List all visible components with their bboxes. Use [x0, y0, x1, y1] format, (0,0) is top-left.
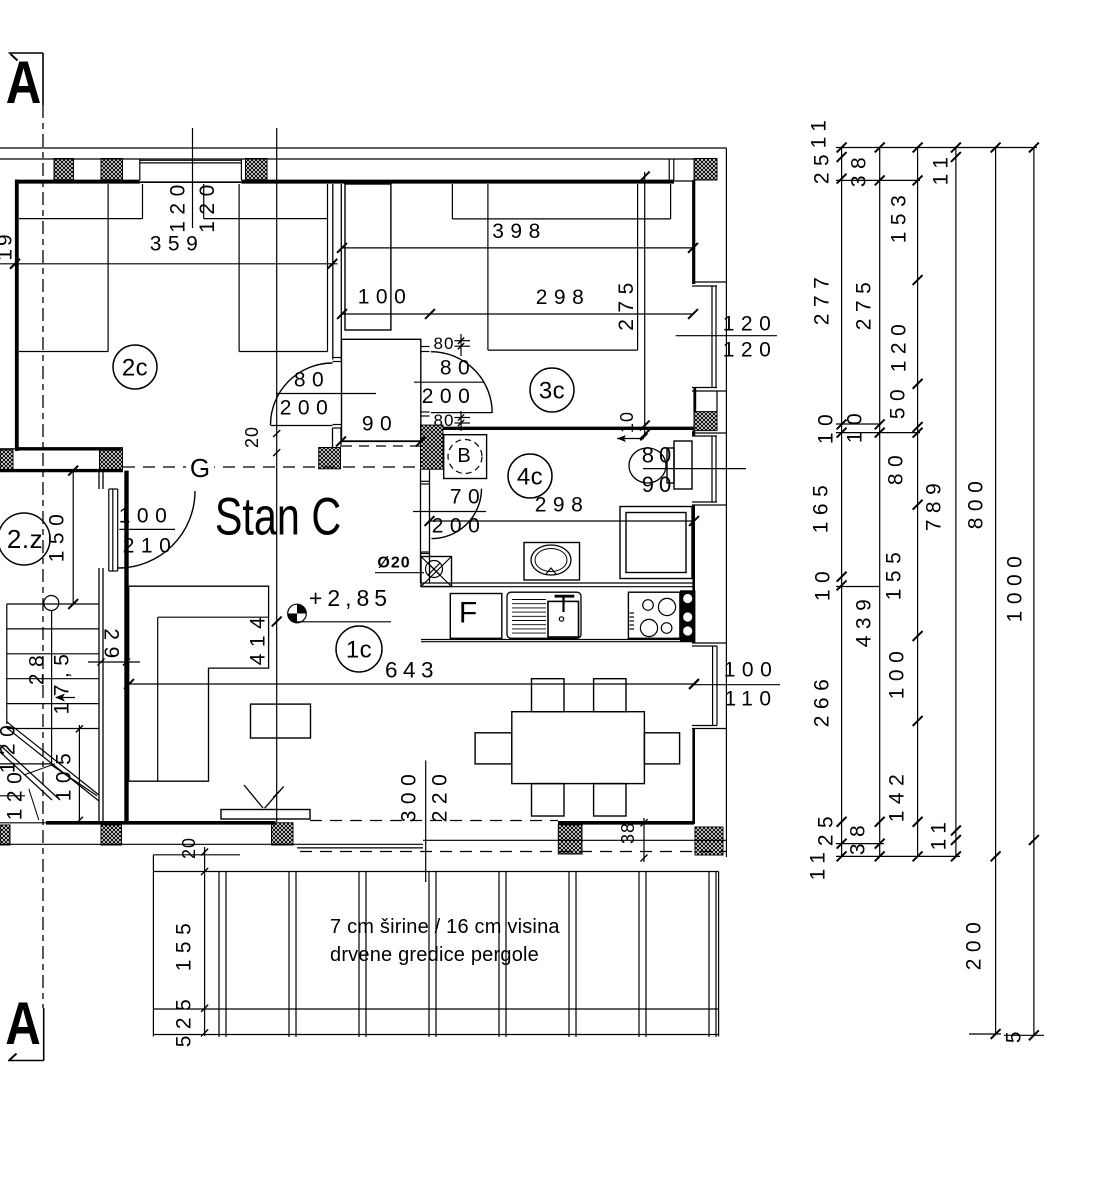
- svg-text:2c: 2c: [122, 355, 148, 382]
- pergola top beam: [153, 871, 718, 873]
- svg-text:70: 70: [450, 486, 486, 509]
- dim stub d3c bot: [460, 411, 462, 431]
- chain connector 856: [836, 855, 960, 857]
- outer boundary right: [725, 148, 727, 857]
- pergola right edge: [718, 872, 720, 1037]
- svg-text:120: 120: [167, 178, 190, 233]
- section mark A bottom: [8, 1060, 44, 1062]
- tick 29 a: [97, 658, 104, 665]
- kitchen counter bottom lines: [421, 639, 694, 641]
- chain connector top: [836, 147, 1037, 149]
- right wall 4c: [692, 431, 695, 437]
- dim line 300-220 sep: [425, 761, 427, 883]
- door D3c jamb bottom: [421, 411, 430, 413]
- section mark A top: [9, 52, 44, 54]
- chain line L4: [955, 148, 957, 857]
- terrace line 3: [423, 839, 726, 841]
- window W4 jamb top: [692, 642, 726, 644]
- svg-text:275: 275: [853, 276, 876, 331]
- wall band left edge line: [0, 448, 15, 450]
- pier hatch R1: [694, 412, 717, 431]
- door D2c jamb bottom: [333, 424, 342, 426]
- svg-text:11: 11: [808, 114, 831, 149]
- dim line 150: [72, 469, 74, 605]
- chain line L3: [917, 148, 919, 857]
- svg-text:25: 25: [811, 148, 834, 184]
- svg-text:120: 120: [723, 313, 778, 336]
- chair top-left: [532, 679, 565, 712]
- dim line 643: [129, 683, 694, 685]
- bottom wall thick left: [46, 821, 276, 825]
- wall living thick: [124, 471, 128, 822]
- svg-text:200: 200: [963, 916, 986, 971]
- window W3 jamb top: [692, 432, 726, 434]
- pier hatch B2: [272, 823, 294, 845]
- right wall black bar: [693, 388, 696, 412]
- terrace dashed door: [310, 820, 558, 822]
- svg-text:20: 20: [179, 837, 199, 859]
- svg-text:1000: 1000: [1004, 550, 1027, 623]
- floor drain: [421, 557, 452, 587]
- svg-text:80: 80: [440, 357, 476, 380]
- svg-text:11: 11: [928, 816, 951, 851]
- pier hatch hall mid: [319, 448, 341, 469]
- tick 298b left: [425, 516, 435, 526]
- tick 105 bot: [76, 817, 83, 824]
- svg-text:80: 80: [434, 334, 455, 353]
- dim line 20-155-525: [204, 847, 206, 1036]
- bottom wall thick right: [558, 821, 694, 825]
- svg-text:38: 38: [848, 151, 871, 187]
- svg-text:3c: 3c: [539, 378, 565, 405]
- wall 2c-3c pair: [332, 184, 334, 360]
- stove burner 2: [658, 598, 675, 615]
- stair walk circle: [44, 596, 59, 611]
- svg-text:165: 165: [810, 479, 833, 534]
- chain line L1: [841, 148, 843, 857]
- dim stub d3c top: [460, 334, 462, 356]
- bed B1 room 2c: [107, 184, 109, 352]
- terrace step left: [153, 854, 240, 856]
- tick 10 wc: [640, 433, 647, 440]
- top wall niche: [674, 180, 694, 182]
- tick 275 bot: [640, 421, 650, 431]
- window W1 glass: [140, 159, 242, 161]
- svg-text:5: 5: [1003, 1025, 1026, 1043]
- dashed line upper hall: [342, 445, 421, 447]
- svg-text:439: 439: [853, 593, 876, 648]
- top wall thick left: [15, 180, 140, 184]
- svg-text:20: 20: [242, 426, 262, 448]
- tick 20 hall b: [273, 449, 280, 456]
- dim line 275 vert: [644, 172, 646, 436]
- svg-text:105: 105: [53, 747, 76, 802]
- stair walk arrow: [56, 697, 75, 699]
- nightstand N2 room 2c: [203, 184, 205, 219]
- svg-text:F: F: [459, 597, 477, 630]
- door D2c leaf: [271, 425, 333, 427]
- window W2 jamb bot: [692, 387, 717, 389]
- kitchen counter top lines: [421, 582, 694, 584]
- svg-text:50: 50: [887, 383, 910, 419]
- door D4c jamb bottom: [421, 551, 430, 553]
- svg-text:10: 10: [617, 411, 637, 433]
- tick 29 b: [123, 658, 130, 665]
- bed 3c: [487, 184, 489, 350]
- ticks L4: [951, 143, 961, 153]
- dim line 359: [0, 263, 338, 265]
- tick 10 bot: [640, 430, 650, 440]
- door D3c leaf: [431, 412, 492, 414]
- terrace line 2: [297, 847, 423, 849]
- pier hatch hall right: [421, 425, 443, 469]
- svg-text:266: 266: [811, 673, 834, 728]
- door D2c jamb top: [333, 357, 342, 359]
- tick 100 left: [337, 309, 347, 319]
- wall stairs-hall pair lower: [98, 568, 100, 822]
- door D4c jamb top: [421, 480, 430, 482]
- svg-text:200: 200: [432, 515, 487, 538]
- svg-text:155: 155: [883, 546, 906, 601]
- door D1c frame: [108, 489, 110, 571]
- pier hatch T3: [246, 159, 268, 181]
- svg-text:11: 11: [807, 846, 830, 881]
- svg-text:298: 298: [536, 286, 591, 309]
- pier hatch B0: [0, 825, 10, 845]
- svg-text:+2,85: +2,85: [309, 585, 392, 611]
- tick 150 top: [68, 466, 78, 476]
- svg-text:525: 525: [173, 993, 196, 1048]
- svg-text:10: 10: [815, 408, 838, 444]
- tick 155 bot: [201, 1005, 208, 1012]
- door D1c arc: [118, 491, 195, 568]
- dim line 100-298: [342, 313, 694, 315]
- ticks L2: [875, 143, 885, 153]
- pier hatch T4 (top-right corner): [694, 159, 717, 181]
- fridge F box: [450, 594, 502, 639]
- svg-text:120: 120: [723, 339, 778, 362]
- svg-text:19: 19: [0, 231, 17, 260]
- svg-text:155: 155: [173, 917, 196, 972]
- table small 1c: [251, 704, 311, 738]
- dim sep door3c: [414, 381, 484, 383]
- svg-text:Ø20: Ø20: [377, 555, 410, 572]
- left wall thick: [15, 180, 19, 451]
- tick 38t b: [640, 854, 647, 861]
- tick 359 left: [10, 259, 20, 269]
- tick 90 left: [336, 437, 346, 447]
- stair tread low 2: [0, 795, 25, 797]
- svg-text:B: B: [457, 445, 470, 467]
- ext line long x276: [276, 128, 278, 822]
- tick 275 top: [640, 172, 650, 182]
- svg-text:210: 210: [123, 535, 178, 558]
- svg-text:110: 110: [725, 688, 778, 711]
- svg-text:100: 100: [358, 286, 413, 309]
- top wall thick mid: [241, 180, 674, 184]
- top wall window sill line: [140, 181, 242, 183]
- chain line L5: [995, 148, 997, 1035]
- svg-text:drvene gredice pergole: drvene gredice pergole: [330, 944, 539, 966]
- dim line 38t: [643, 818, 645, 862]
- svg-text:1c: 1c: [346, 637, 372, 664]
- right wall kitchen: [692, 505, 695, 643]
- svg-text:298: 298: [535, 494, 590, 517]
- svg-text:80: 80: [885, 449, 908, 485]
- svg-text:398: 398: [492, 220, 547, 243]
- svg-text:G: G: [190, 453, 210, 483]
- room label circle 1c: [336, 626, 382, 672]
- dashed line G: [123, 466, 421, 468]
- stair break lines: [7, 722, 99, 795]
- tick 20 hall a: [273, 430, 280, 437]
- room label circle 3c: [530, 368, 574, 412]
- svg-text:10: 10: [812, 565, 835, 601]
- pier hatch T1: [54, 159, 74, 181]
- window W3 jamb bot: [692, 501, 717, 503]
- svg-text:300: 300: [398, 768, 421, 823]
- wall band 2c bottom top edge: [15, 447, 123, 450]
- pergola bottom rail: [153, 1008, 718, 1010]
- svg-text:200: 200: [422, 385, 477, 408]
- sofa 1c: [129, 586, 269, 781]
- label G: [186, 455, 214, 479]
- dim line 398: [342, 247, 694, 249]
- toilet 4c tank: [667, 448, 674, 483]
- tick 20t b: [201, 868, 208, 875]
- tick 150 bot: [68, 599, 78, 609]
- tick 298b right: [689, 516, 699, 526]
- svg-text:120: 120: [888, 318, 911, 373]
- dim line 298 bath: [430, 520, 695, 522]
- bottom wall thin left: [0, 822, 46, 824]
- right wall lower: [692, 729, 695, 825]
- svg-text:220: 220: [429, 768, 452, 823]
- ticks L5: [991, 143, 1001, 153]
- window W4 glass: [712, 646, 714, 726]
- svg-text:359: 359: [150, 233, 205, 256]
- chair bottom-right: [594, 784, 626, 816]
- svg-text:643: 643: [385, 658, 439, 683]
- tick 105 top: [76, 725, 83, 732]
- stair left edge: [6, 604, 8, 724]
- terrace line 1: [0, 843, 423, 845]
- dim sep 100-110 right: [694, 684, 780, 686]
- dim line 105: [78, 725, 80, 821]
- stair treads: [7, 603, 99, 605]
- pier hatch hall left edge: [0, 450, 13, 471]
- pier hatch B3: [558, 825, 582, 854]
- chain line L2: [879, 148, 881, 857]
- dim sep door2c: [276, 393, 376, 395]
- dim sep 120 right: [676, 335, 777, 337]
- roof edge line 2: [0, 158, 694, 160]
- window W2 jamb top: [692, 281, 726, 283]
- tick 38t a: [640, 819, 647, 826]
- svg-text:90: 90: [362, 413, 398, 436]
- wall 4c top: [443, 427, 694, 430]
- window W2 glass: [711, 286, 713, 387]
- chain connector 424: [836, 423, 880, 425]
- boiler B box: [444, 435, 487, 479]
- tick x276 low: [273, 790, 280, 797]
- svg-text:A: A: [5, 989, 41, 1057]
- stair break lower: [0, 745, 60, 800]
- oven black unit: [680, 590, 695, 641]
- svg-text:10: 10: [844, 407, 867, 443]
- tick 359 right: [327, 259, 337, 269]
- chain connector 1035: [1004, 1034, 1044, 1036]
- sink drainboard stripes: [512, 599, 546, 601]
- door D3c jamb top: [421, 346, 430, 348]
- ext line top 120 sep: [192, 128, 194, 228]
- pier hatch R2 bottom-right: [695, 827, 723, 855]
- pier hatch hall left: [100, 450, 123, 471]
- chair right: [644, 733, 679, 764]
- chain connector 843: [836, 843, 884, 845]
- chair top-right: [594, 679, 626, 712]
- leader 120 b: [29, 789, 39, 820]
- svg-text:80: 80: [294, 369, 330, 392]
- wc leader line: [643, 468, 746, 470]
- wall band 2c bottom bot edge: [0, 469, 123, 472]
- washbasin: [524, 543, 580, 581]
- svg-text:277: 277: [811, 271, 834, 326]
- stair walk line: [51, 611, 53, 766]
- pier hatch B1: [101, 825, 122, 845]
- chain connector 180: [836, 179, 920, 181]
- door D3c arc: [431, 352, 492, 413]
- room label circle 2.z: [0, 513, 50, 565]
- svg-text:800: 800: [965, 475, 988, 530]
- stove burner 4: [661, 623, 672, 634]
- svg-text:789: 789: [923, 477, 946, 532]
- dim sep door4c: [413, 511, 486, 513]
- room label circle 2c: [113, 345, 157, 389]
- chain line L6: [1033, 148, 1035, 1036]
- svg-text:4c: 4c: [517, 464, 543, 491]
- svg-text:142: 142: [886, 768, 909, 823]
- chain connector 432: [836, 432, 920, 434]
- sink tap: [555, 595, 575, 598]
- chair left: [475, 733, 512, 764]
- nightstand 3c right: [670, 184, 672, 219]
- dim line 100-110 ext: [694, 684, 780, 686]
- wall 4c left pair: [420, 469, 422, 583]
- svg-text:2.z: 2.z: [7, 524, 43, 554]
- svg-text:100: 100: [724, 659, 779, 682]
- pergola posts: [218, 872, 220, 1038]
- section line A-A dashed: [42, 105, 44, 1008]
- stove burner 1: [643, 600, 654, 611]
- door D4c arc: [432, 489, 482, 539]
- tick 643 right: [689, 679, 699, 689]
- svg-text:153: 153: [888, 189, 911, 244]
- stove knobs: [630, 612, 635, 614]
- wall 2c-3c lower stub: [332, 428, 334, 447]
- dim line 29: [88, 661, 140, 663]
- tick 298 right: [688, 309, 698, 319]
- svg-text:90: 90: [642, 472, 676, 497]
- chair bottom-left: [532, 784, 565, 816]
- tick 414: [272, 617, 282, 627]
- toilet 4c bowl: [629, 448, 666, 483]
- svg-text:38: 38: [847, 819, 870, 855]
- stair tread low 1: [0, 763, 51, 765]
- svg-text:414: 414: [247, 611, 270, 666]
- svg-text:28: 28: [26, 649, 49, 685]
- bed B2 room 2c: [238, 184, 240, 352]
- tick 398 left: [337, 243, 347, 253]
- shower tray: [620, 507, 692, 579]
- tick 525 bot: [201, 1029, 208, 1036]
- tick 20t a: [201, 848, 208, 855]
- closet hall rect: [342, 339, 421, 441]
- tick 398 right: [688, 243, 698, 253]
- sink unit outline: [507, 592, 581, 638]
- svg-text:120: 120: [196, 178, 219, 233]
- svg-text:120: 120: [4, 766, 27, 821]
- dim sep door1c: [119, 528, 175, 530]
- roof edge line 1: [0, 147, 726, 149]
- dining table: [512, 712, 645, 784]
- right wall stub: [716, 391, 718, 412]
- svg-text:Stan C: Stan C: [215, 487, 341, 546]
- svg-text:7 cm širine / 16 cm visina: 7 cm širine / 16 cm visina: [330, 916, 560, 938]
- room label circle 4c: [508, 454, 552, 498]
- chain connector 586: [836, 586, 880, 588]
- svg-text:120: 120: [0, 719, 20, 774]
- pergola left edge: [152, 855, 154, 1037]
- svg-text:17,5: 17,5: [51, 648, 74, 715]
- nightstand 3c left: [451, 184, 453, 219]
- leader 120 a: [24, 764, 55, 775]
- chain connector 1034: [969, 1033, 1001, 1035]
- window W4 jamb bot: [692, 725, 717, 727]
- stove burner 3: [640, 619, 657, 636]
- door D2c arc: [271, 363, 333, 425]
- right wall thick upper: [692, 180, 695, 284]
- threshold bar: [221, 810, 310, 820]
- tick 90 right: [416, 437, 426, 447]
- arrow 10 wc: [617, 438, 644, 440]
- tick 100-298: [425, 309, 435, 319]
- svg-text:80: 80: [642, 443, 676, 468]
- ticks L3: [913, 143, 923, 153]
- tick 643 left: [124, 679, 134, 689]
- entry arrow: [244, 785, 263, 808]
- terrace dashes right: [300, 851, 726, 853]
- pier hatch T2: [101, 159, 123, 181]
- svg-text:275: 275: [615, 276, 638, 331]
- wardrobe 3c: [345, 184, 391, 330]
- svg-text:100: 100: [886, 645, 909, 700]
- level mark circle: [288, 604, 307, 623]
- stove outline: [628, 592, 680, 638]
- dim line 90 hall: [341, 441, 421, 443]
- window W3 glass: [711, 436, 713, 502]
- svg-text:A: A: [6, 48, 42, 116]
- svg-text:200: 200: [280, 397, 335, 420]
- wall stairs-hall pair: [98, 472, 100, 489]
- svg-text:25: 25: [815, 810, 838, 846]
- ticks L6: [1029, 143, 1039, 153]
- svg-text:11: 11: [930, 151, 953, 186]
- boiler B dashed circle: [448, 440, 482, 474]
- ticks L1: [837, 143, 847, 153]
- sink bowl: [548, 601, 579, 637]
